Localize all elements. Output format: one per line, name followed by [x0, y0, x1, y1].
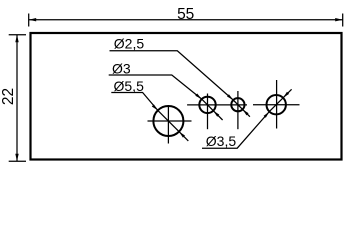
arrow 22 down [15, 154, 18, 162]
centerline C2 vertical [207, 94, 209, 130]
svg-text:Ø3,5: Ø3,5 [206, 133, 237, 149]
arrow C2 lower-right [213, 111, 219, 117]
dimension line 55 [29, 19, 343, 21]
arrow C1 lower-right tail [179, 132, 188, 141]
arrow C1 upper-left [152, 104, 158, 110]
hole circle C1 (diam 5,5) [153, 106, 183, 136]
arrow 22 up [15, 35, 18, 43]
hole circle C3 (diam 2,5) [231, 98, 244, 111]
svg-text:Ø3: Ø3 [112, 60, 131, 76]
arrow C2 upper-left [195, 94, 201, 100]
centerline C1 vertical [167, 106, 169, 144]
extension tick bottom (dim 22) [9, 160, 26, 162]
svg-text:Ø2,5: Ø2,5 [114, 36, 145, 52]
arrow C3 upper-left [227, 94, 233, 100]
arrow C2 lower-right tail [213, 111, 222, 120]
leader Ø5,5 [111, 93, 158, 111]
arrow C3 lower-right [243, 109, 249, 115]
svg-text:22: 22 [0, 88, 17, 105]
centerline C1 horizontal [148, 120, 192, 122]
hole circle C2 (diam 3) [199, 97, 215, 113]
diameter line C1 [158, 110, 179, 131]
arrow C3 lower-right tail [243, 109, 250, 116]
diameter line C4 [269, 98, 283, 112]
arrow C4 upper-right tail [283, 89, 292, 98]
leader Ø3,5 [202, 112, 269, 149]
arrow C1 lower-right [179, 132, 185, 138]
hole circle C4 (diam 3,5) [267, 95, 286, 114]
svg-text:55: 55 [177, 6, 194, 23]
centerline C3 vertical [237, 91, 239, 129]
extension line left (dim 55) [28, 14, 30, 27]
dimension line 22 [16, 35, 18, 162]
arrow C4 lower-left [264, 112, 270, 118]
svg-text:Ø5,5: Ø5,5 [114, 78, 145, 94]
arrow C4 upper-right [283, 92, 289, 98]
diameter line C3 [233, 100, 242, 109]
leader Ø2,5 [110, 51, 234, 100]
centerline C4 horizontal [253, 104, 300, 106]
extension tick top (dim 22) [9, 34, 26, 36]
plate outline [31, 33, 342, 160]
centerline C2-C3 horizontal [187, 104, 247, 106]
arrow 55 right [335, 18, 343, 21]
centerline C4 vertical [276, 80, 278, 129]
arrow 55 left [29, 18, 37, 21]
leader Ø3 [109, 75, 202, 99]
extension line right (dim 55) [342, 14, 344, 27]
diameter line C2 [202, 99, 214, 111]
